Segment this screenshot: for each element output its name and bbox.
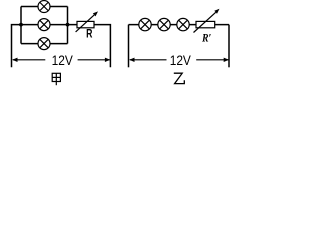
label 甲 xyxy=(52,73,60,85)
12V dimension arrow (left circuit) xyxy=(12,58,110,62)
rheostat R arrow xyxy=(76,11,98,32)
circuit 甲 (left) xyxy=(12,7,111,68)
rheostat R' arrow xyxy=(194,9,220,33)
wire top run xyxy=(129,24,230,26)
wire right rail of parallel block xyxy=(67,7,69,44)
lamp L6 xyxy=(177,18,189,30)
rheostat R body xyxy=(77,21,94,27)
circuit 乙 (right) xyxy=(129,25,230,68)
wire bottom branch xyxy=(21,43,68,45)
lamp L2 (middle) xyxy=(38,19,50,31)
svg-text:12V: 12V xyxy=(170,52,192,68)
lamp L3 (bottom) xyxy=(38,38,50,50)
wire left terminal vertical xyxy=(12,25,22,68)
12V dimension arrow (right circuit) xyxy=(129,58,229,62)
rheostat R' body xyxy=(196,21,215,27)
svg-text:R′: R′ xyxy=(201,30,211,44)
junction dot left node xyxy=(19,23,23,27)
wire left rail of parallel block xyxy=(20,7,22,44)
wire left terminal vertical xyxy=(128,25,130,68)
junction dot right node xyxy=(66,23,70,27)
wire middle branch xyxy=(21,24,77,26)
label 乙 xyxy=(174,73,185,83)
svg-text:12V: 12V xyxy=(52,52,74,68)
lamp L4 xyxy=(139,18,151,30)
wire top branch xyxy=(21,6,68,8)
svg-text:R: R xyxy=(86,27,93,41)
wire from rheostat to right terminal xyxy=(94,25,110,68)
lamp L5 xyxy=(158,18,170,30)
wire right terminal vertical xyxy=(228,25,230,68)
lamp L1 (top) xyxy=(38,1,50,13)
